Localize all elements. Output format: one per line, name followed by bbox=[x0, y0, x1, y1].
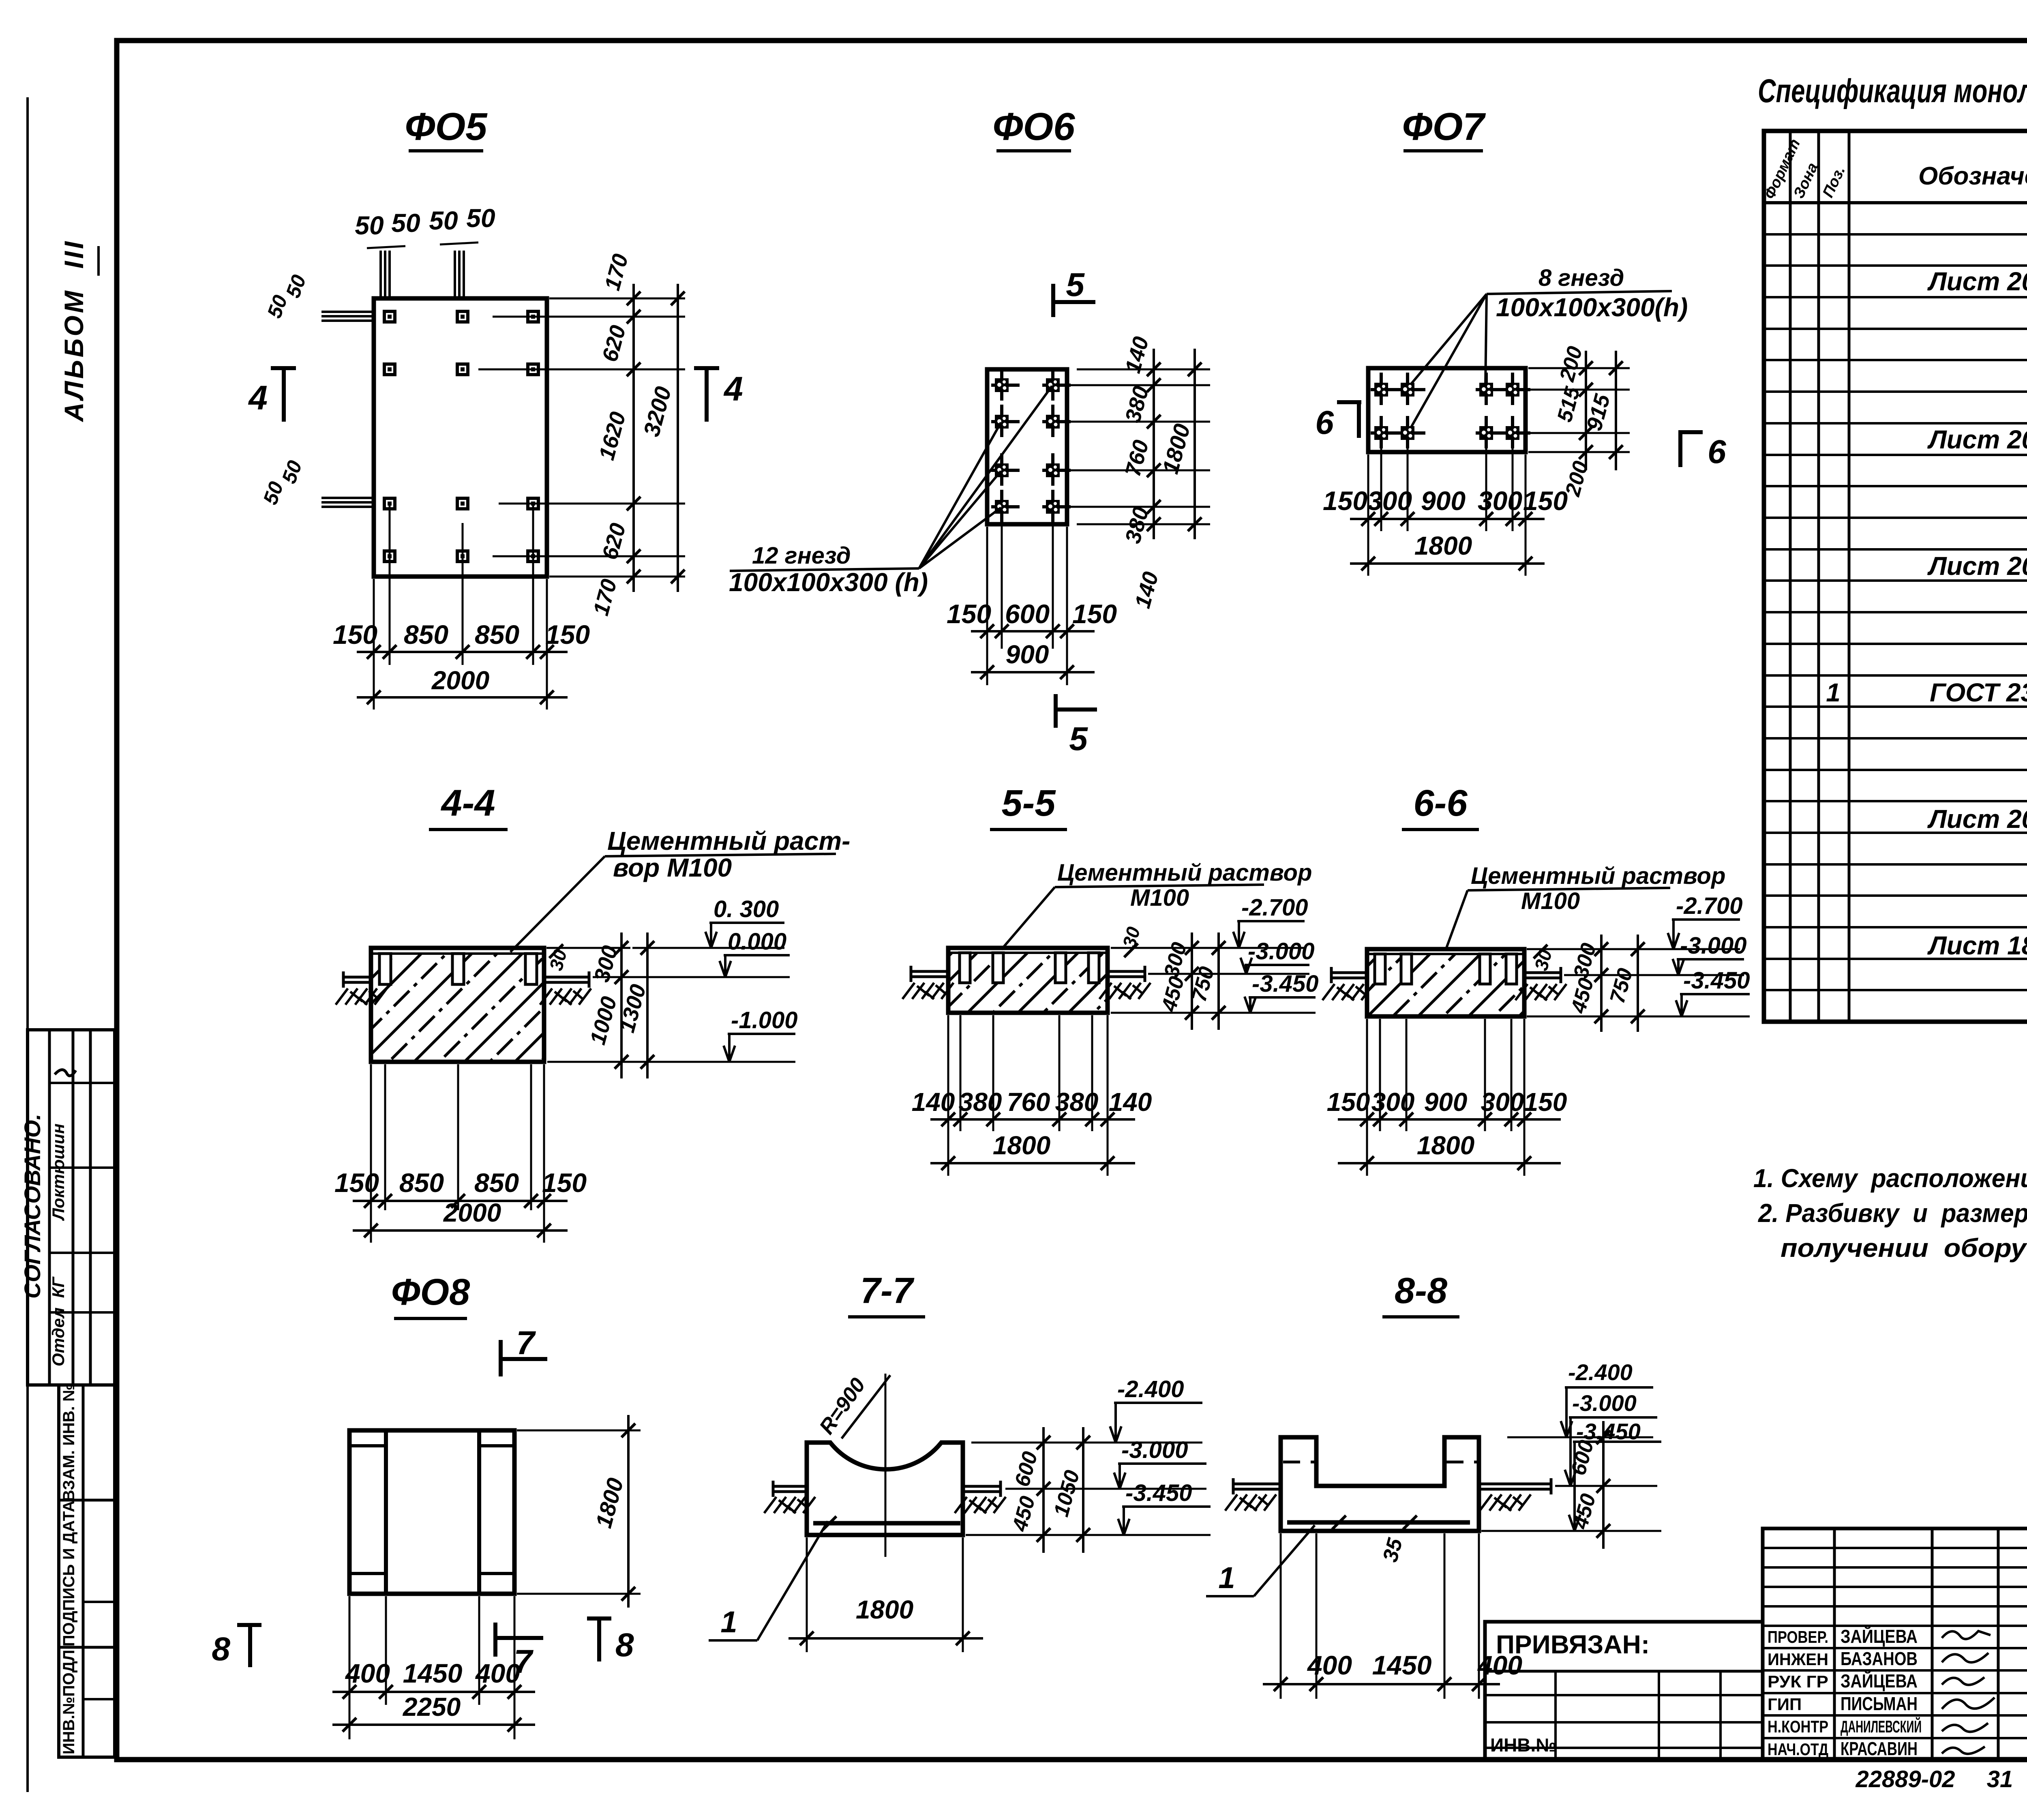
FO6 leader lines bbox=[919, 386, 1052, 568]
anchor bolt FO5 r2c3 bbox=[528, 364, 538, 375]
svg-text:1050: 1050 bbox=[1050, 1468, 1084, 1519]
svg-text:50: 50 bbox=[277, 457, 306, 487]
7-7 centerline bbox=[885, 1374, 887, 1557]
FO5 dim line bottom outer bbox=[357, 696, 568, 699]
socket FO6 r3c2 bbox=[1042, 453, 1071, 486]
table row line 25 bbox=[1764, 989, 2027, 991]
FO8 dim bottom inner bbox=[332, 1691, 535, 1693]
5-5 bottom ext lines bbox=[947, 1015, 949, 1176]
svg-text:8: 8 bbox=[212, 1631, 230, 1668]
table row line 24 bbox=[1764, 958, 2027, 960]
svg-text:4: 4 bbox=[248, 379, 268, 417]
svg-text:620: 620 bbox=[598, 323, 630, 364]
svg-text:2. Разбивку и размеры гнезд: 2. Разбивку и размеры гнезд уточнить при bbox=[1758, 1198, 2027, 1228]
svg-text:300: 300 bbox=[1367, 486, 1412, 516]
svg-text:450: 450 bbox=[1566, 975, 1598, 1016]
signature squiggle bbox=[1942, 1653, 1988, 1662]
svg-text:850: 850 bbox=[404, 620, 448, 650]
lower stamp sub row b bbox=[83, 1698, 115, 1700]
floor stub right 5-5 bbox=[1108, 970, 1146, 973]
level line -2.400 bbox=[971, 1442, 1202, 1444]
svg-text:R=900: R=900 bbox=[815, 1374, 870, 1438]
FO6 dim line right inner bbox=[1153, 349, 1155, 539]
svg-text:600: 600 bbox=[1010, 1449, 1042, 1489]
svg-text:ЗАЙЦЕВА: ЗАЙЦЕВА bbox=[1841, 1670, 1918, 1691]
stamp row 2 bbox=[49, 1166, 115, 1169]
leader 1 s88 bbox=[1254, 1525, 1315, 1596]
svg-text:М100: М100 bbox=[1521, 888, 1580, 914]
8-8 dim line right bbox=[1602, 1421, 1605, 1549]
socket 5-5 n4 bbox=[1088, 953, 1099, 983]
svg-text:300: 300 bbox=[1371, 1087, 1415, 1117]
FO5 dim line right inner bbox=[632, 284, 635, 592]
anchor bolt FO5 r2c1 bbox=[384, 364, 395, 375]
6-6 bottom ext lines bbox=[1366, 1019, 1368, 1176]
socket FO7 r1c3 bbox=[1476, 373, 1504, 405]
socket 5-5 n1 bbox=[960, 953, 970, 983]
soil hatch left 7-7 bbox=[764, 1497, 815, 1513]
section mark 8 left bbox=[237, 1623, 261, 1627]
svg-text:Лист 18: Лист 18 bbox=[1927, 931, 2027, 960]
svg-text:1. Схему расположения фундам: 1. Схему расположения фундаментов см. ли… bbox=[1753, 1164, 2027, 1193]
foundation FO7 outline bbox=[1368, 368, 1526, 452]
svg-text:100х100х300 (h): 100х100х300 (h) bbox=[729, 568, 928, 597]
section mark 8 right bbox=[587, 1616, 611, 1621]
svg-text:150: 150 bbox=[545, 620, 590, 650]
leader 1 s77 bbox=[757, 1521, 828, 1640]
cement mortar layer line 4-4 bbox=[371, 952, 544, 955]
7-7 dim bottom bbox=[789, 1637, 983, 1640]
FO8 inner wall line right bbox=[477, 1430, 481, 1594]
socket 5-5 n3 bbox=[1055, 953, 1066, 983]
svg-text:300: 300 bbox=[1481, 1087, 1524, 1117]
socket FO7 r2c2 bbox=[1397, 416, 1425, 448]
svg-text:получении оборудования.: получении оборудования. bbox=[1781, 1233, 2027, 1263]
table row line 12 bbox=[1764, 579, 2027, 582]
socket FO6 r2c2 bbox=[1042, 405, 1071, 437]
svg-text:50: 50 bbox=[355, 211, 384, 240]
svg-text:31: 31 bbox=[1987, 1766, 2013, 1792]
section mark 4 left bbox=[271, 366, 296, 370]
5-5 dim line right inner bbox=[1191, 933, 1193, 1030]
signature mark bbox=[55, 1070, 76, 1076]
svg-text:1: 1 bbox=[1826, 678, 1841, 707]
signature squiggle bbox=[1942, 1677, 1984, 1685]
level line -3.000 bbox=[1564, 974, 1744, 976]
table row line 16 bbox=[1764, 705, 2027, 708]
svg-text:170: 170 bbox=[600, 251, 633, 293]
svg-text:ФО5: ФО5 bbox=[405, 105, 488, 148]
svg-text:ИНЖЕН: ИНЖЕН bbox=[1768, 1650, 1828, 1669]
8-8 dashed line left post bbox=[1283, 1461, 1315, 1464]
svg-text:-3.450: -3.450 bbox=[1252, 971, 1318, 997]
socket FO6 r1c2 bbox=[1042, 368, 1071, 401]
4-4 bottom ext lines bbox=[370, 1064, 372, 1243]
svg-text:ИНВ.№ПОДЛ: ИНВ.№ПОДЛ bbox=[60, 1650, 78, 1754]
FO6 dim line bottom inner bbox=[971, 630, 1095, 632]
socket FO7 r2c3 bbox=[1476, 416, 1504, 448]
socket FO6 r2c1 bbox=[991, 405, 1020, 437]
socket FO7 r2c4 bbox=[1502, 416, 1530, 448]
svg-text:Цементный раствор: Цементный раствор bbox=[1471, 863, 1725, 889]
soil hatch left 5-5 bbox=[902, 983, 954, 999]
lower stamp box bbox=[59, 1385, 115, 1757]
svg-text:1620: 1620 bbox=[594, 409, 630, 463]
svg-text:1300: 1300 bbox=[615, 982, 651, 1035]
lower stamp sub row a bbox=[83, 1601, 115, 1603]
svg-text:450: 450 bbox=[1008, 1494, 1040, 1534]
svg-text:50: 50 bbox=[259, 478, 288, 508]
embedded plate 7-7 bbox=[813, 1521, 960, 1526]
svg-text:Цементный раствор: Цементный раствор bbox=[1057, 860, 1312, 886]
stamp col line c bbox=[89, 1030, 92, 1385]
svg-text:8: 8 bbox=[615, 1627, 634, 1664]
8-8 U shaped block bbox=[1281, 1437, 1479, 1531]
soil hatch left 4-4 bbox=[336, 988, 387, 1005]
svg-text:1800: 1800 bbox=[591, 1475, 628, 1531]
svg-text:900: 900 bbox=[1006, 640, 1049, 669]
soil hatch right 5-5 bbox=[1099, 983, 1151, 999]
FO6 dim line bottom outer bbox=[971, 671, 1095, 673]
floor stub right 6-6 bbox=[1524, 971, 1562, 974]
svg-text:Лист 20: Лист 20 bbox=[1927, 267, 2027, 296]
rebar group left A bbox=[321, 311, 374, 313]
section mark 5 bottom bbox=[1054, 694, 1058, 728]
svg-text:900: 900 bbox=[1424, 1087, 1468, 1117]
6-6 dim line right inner bbox=[1600, 935, 1603, 1032]
svg-text:5: 5 bbox=[1069, 720, 1088, 757]
svg-text:-1.000: -1.000 bbox=[731, 1007, 797, 1033]
stamp col line a bbox=[48, 1030, 51, 1385]
anchor bolt FO5 r4c1 bbox=[384, 551, 395, 562]
svg-text:2250: 2250 bbox=[403, 1692, 461, 1721]
svg-text:Зона: Зона bbox=[1790, 160, 1821, 201]
rebar top dim marks bbox=[367, 246, 405, 248]
svg-text:1800: 1800 bbox=[993, 1131, 1050, 1160]
svg-text:ПРОВЕР.: ПРОВЕР. bbox=[1768, 1627, 1828, 1646]
svg-text:3200: 3200 bbox=[639, 384, 676, 439]
svg-text:400: 400 bbox=[345, 1658, 390, 1688]
svg-text:30: 30 bbox=[1530, 947, 1556, 973]
7-7 dim line right outer bbox=[1082, 1427, 1084, 1553]
svg-text:ГОСТ 23279-85: ГОСТ 23279-85 bbox=[1930, 678, 2027, 707]
level line -2.700 bbox=[1527, 948, 1740, 950]
FO5 dim line bottom inner bbox=[357, 651, 568, 653]
FO8 right strip caps bbox=[479, 1444, 514, 1447]
stamp row 3 bbox=[49, 1252, 115, 1254]
svg-text:150: 150 bbox=[1323, 486, 1367, 516]
svg-text:-2.400: -2.400 bbox=[1568, 1359, 1633, 1385]
svg-text:-3.000: -3.000 bbox=[1680, 933, 1746, 959]
svg-text:750: 750 bbox=[1605, 966, 1637, 1006]
soil hatch left 8-8 bbox=[1225, 1494, 1276, 1511]
svg-text:4-4: 4-4 bbox=[441, 782, 495, 824]
svg-text:150: 150 bbox=[542, 1168, 587, 1198]
floor stub left 8-8 bbox=[1232, 1483, 1281, 1486]
approval stamp box bbox=[28, 1030, 115, 1385]
6-6 dim line right outer bbox=[1637, 935, 1639, 1032]
table row line 21 bbox=[1764, 863, 2027, 866]
table row line 22 bbox=[1764, 894, 2027, 897]
anchor bolt FO5 r1c1 bbox=[384, 311, 395, 322]
anchor bolt FO5 r3c2 bbox=[457, 498, 468, 509]
svg-text:БАЗАНОВ: БАЗАНОВ bbox=[1841, 1648, 1918, 1669]
section 4-4 concrete block bbox=[371, 954, 544, 1062]
8-8 dashed line right post bbox=[1446, 1461, 1477, 1464]
svg-text:-3.000: -3.000 bbox=[1572, 1390, 1637, 1416]
table row line 17 bbox=[1764, 737, 2027, 740]
5-5 dim line right outer bbox=[1217, 933, 1220, 1030]
svg-text:Лист 20: Лист 20 bbox=[1927, 804, 2027, 834]
sheet trim line left bbox=[26, 97, 29, 1792]
svg-text:380: 380 bbox=[1121, 384, 1153, 425]
anchor bolt FO5 r3c1 bbox=[384, 498, 395, 509]
stamp row 1 bbox=[49, 1082, 115, 1084]
level line -3.450 bbox=[966, 1534, 1211, 1536]
level line -1.000 bbox=[547, 1061, 795, 1063]
svg-text:150: 150 bbox=[1072, 599, 1117, 629]
table row line 10 bbox=[1764, 517, 2027, 519]
6-6 dim bottom outer bbox=[1338, 1162, 1561, 1164]
svg-text:0.000: 0.000 bbox=[728, 928, 786, 955]
4-4 dim line right outer bbox=[646, 933, 649, 1078]
svg-text:7-7: 7-7 bbox=[860, 1271, 915, 1311]
svg-text:1: 1 bbox=[1218, 1561, 1235, 1595]
level line -3.000 bbox=[1005, 1488, 1206, 1490]
svg-text:50: 50 bbox=[263, 292, 292, 321]
socket 6-6 n2 bbox=[1401, 954, 1412, 984]
socket FO7 r1c1 bbox=[1371, 373, 1399, 405]
svg-text:150: 150 bbox=[334, 1168, 379, 1198]
svg-text:850: 850 bbox=[474, 1168, 519, 1198]
rebar group top A bbox=[379, 251, 382, 298]
svg-text:7: 7 bbox=[514, 1643, 534, 1680]
section mark 7 bottom bbox=[493, 1623, 497, 1657]
svg-text:5: 5 bbox=[1066, 266, 1085, 303]
svg-text:6: 6 bbox=[1315, 404, 1334, 441]
foundation FO8 outline bbox=[349, 1430, 514, 1594]
svg-text:140: 140 bbox=[912, 1087, 955, 1117]
signature squiggle bbox=[1942, 1698, 1995, 1709]
svg-text:150: 150 bbox=[947, 599, 991, 629]
table row line 14 bbox=[1764, 643, 2027, 645]
svg-text:450: 450 bbox=[1157, 974, 1189, 1014]
table row line 18 bbox=[1764, 769, 2027, 771]
anchor bolt FO5 r1c3 bbox=[528, 311, 538, 322]
soil hatch right 6-6 bbox=[1515, 984, 1566, 1000]
level line 0.000 bbox=[593, 976, 790, 978]
svg-text:6-6: 6-6 bbox=[1414, 782, 1468, 824]
svg-text:ПРИВЯЗАН:: ПРИВЯЗАН: bbox=[1496, 1630, 1650, 1659]
8-8 bottom ext lines bbox=[1280, 1533, 1282, 1699]
svg-text:-3.000: -3.000 bbox=[1248, 938, 1314, 965]
radius line bbox=[842, 1375, 890, 1438]
FO6 dim line right outer bbox=[1193, 349, 1196, 539]
anchor bolt FO5 r3c3 bbox=[528, 498, 538, 509]
table row line 19 bbox=[1764, 800, 2027, 802]
level line -3.000 bbox=[1148, 973, 1309, 975]
socket 4-4 n2 bbox=[452, 954, 464, 984]
soil hatch left 6-6 bbox=[1322, 984, 1373, 1000]
svg-text:1: 1 bbox=[720, 1605, 737, 1639]
svg-text:50: 50 bbox=[466, 204, 495, 233]
cement mortar layer line 5-5 bbox=[948, 952, 1108, 954]
socket 6-6 n4 bbox=[1506, 954, 1517, 984]
svg-text:380: 380 bbox=[1121, 504, 1153, 546]
8-8 dim bottom bbox=[1263, 1683, 1500, 1685]
cement leader 6-6 bbox=[1446, 890, 1468, 950]
4-4 dim bottom inner bbox=[353, 1200, 568, 1202]
FO6 bottom extension lines bbox=[986, 527, 988, 685]
7-7 bottom ext lines bbox=[806, 1537, 808, 1652]
signature squiggle bbox=[1942, 1747, 1985, 1754]
FO8 bottom ext lines bbox=[349, 1596, 351, 1739]
svg-text:100х100х300(h): 100х100х300(h) bbox=[1496, 293, 1688, 322]
lower stamp row 2 bbox=[59, 1646, 115, 1649]
FO7 leader lines bbox=[1408, 294, 1487, 387]
level line -2.400 bbox=[1507, 1436, 1653, 1438]
svg-text:-3.450: -3.450 bbox=[1125, 1480, 1192, 1506]
svg-text:Спецификация монолитных фундам: Спецификация монолитных фундаментов под … bbox=[1758, 73, 2027, 109]
foundation FO6 outline bbox=[987, 369, 1067, 524]
FO6 right extension lines bbox=[1077, 369, 1210, 371]
floor stub right 4-4 bbox=[544, 976, 590, 979]
svg-text:760: 760 bbox=[1007, 1087, 1050, 1117]
socket 6-6 n1 bbox=[1375, 954, 1385, 984]
anchor bolt FO5 r1c2 bbox=[457, 311, 468, 322]
cement leader 5-5 bbox=[1001, 887, 1055, 950]
svg-text:АЛЬБОМ III: АЛЬБОМ III bbox=[59, 239, 89, 422]
table row line 3 bbox=[1764, 296, 2027, 298]
6-6 dim bottom inner bbox=[1338, 1118, 1561, 1121]
FO7 dim line right outer bbox=[1615, 351, 1617, 470]
rebar group left B bbox=[321, 497, 374, 499]
svg-text:8-8: 8-8 bbox=[1395, 1271, 1447, 1311]
svg-text:50: 50 bbox=[281, 272, 311, 301]
svg-text:РУК ГР: РУК ГР bbox=[1768, 1672, 1828, 1691]
svg-text:КРАСАВИН: КРАСАВИН bbox=[1841, 1738, 1918, 1759]
table row line 1 bbox=[1764, 233, 2027, 236]
section mark 5 top bbox=[1051, 284, 1055, 317]
soil hatch right 7-7 bbox=[955, 1497, 1006, 1513]
level line -3.450 bbox=[1527, 1016, 1750, 1018]
svg-text:22889-02: 22889-02 bbox=[1855, 1766, 1955, 1792]
svg-text:1450: 1450 bbox=[403, 1658, 463, 1688]
svg-text:1800: 1800 bbox=[1157, 421, 1195, 477]
FO8 dim bottom outer bbox=[332, 1724, 535, 1726]
svg-text:380: 380 bbox=[1055, 1087, 1099, 1117]
lower stamp row 1 bbox=[59, 1499, 115, 1502]
svg-text:150: 150 bbox=[1523, 486, 1568, 516]
col line poz bbox=[1848, 131, 1851, 1022]
socket 4-4 n3 bbox=[525, 954, 537, 984]
svg-text:50: 50 bbox=[391, 208, 420, 238]
table row line 4 bbox=[1764, 328, 2027, 330]
svg-text:380: 380 bbox=[959, 1087, 1002, 1117]
svg-text:2000: 2000 bbox=[431, 666, 489, 695]
svg-text:Локтюшин: Локтюшин bbox=[49, 1123, 68, 1221]
section mark 6 right bbox=[1678, 430, 1703, 434]
svg-text:1800: 1800 bbox=[1414, 531, 1472, 560]
4-4 dim ext top bbox=[546, 947, 630, 949]
svg-text:1000: 1000 bbox=[585, 994, 621, 1048]
col line zona bbox=[1817, 131, 1820, 1022]
svg-text:Отдел КГ: Отдел КГ bbox=[49, 1276, 68, 1367]
7-7 dim line right inner bbox=[1042, 1427, 1045, 1553]
svg-text:-2.700: -2.700 bbox=[1241, 894, 1308, 921]
table row line 23 bbox=[1764, 926, 2027, 928]
svg-text:1800: 1800 bbox=[856, 1595, 913, 1624]
socket FO6 r1c1 bbox=[991, 368, 1020, 401]
svg-text:760: 760 bbox=[1121, 437, 1153, 479]
svg-text:ПОДПИСЬ И ДАТА: ПОДПИСЬ И ДАТА bbox=[60, 1501, 78, 1646]
FO7 dim line bottom outer bbox=[1350, 562, 1545, 565]
section 6-6 concrete block bbox=[1367, 954, 1524, 1016]
floor stub left 4-4 bbox=[343, 976, 371, 979]
floor stub left 5-5 bbox=[910, 970, 948, 973]
svg-text:150: 150 bbox=[1327, 1087, 1370, 1117]
floor stub right 7-7 bbox=[963, 1485, 1001, 1488]
anchor bolt FO5 r4c2 bbox=[457, 551, 468, 562]
svg-text:ФО7: ФО7 bbox=[1402, 105, 1486, 148]
svg-text:35: 35 bbox=[1378, 1535, 1407, 1565]
embedded plate 8-8 bbox=[1287, 1520, 1470, 1525]
FO8 dim line right bbox=[627, 1415, 630, 1608]
table row line 9 bbox=[1764, 485, 2027, 487]
signature squiggle bbox=[1942, 1631, 1991, 1639]
svg-text:8 гнезд: 8 гнезд bbox=[1538, 265, 1624, 291]
svg-text:ФО8: ФО8 bbox=[391, 1271, 470, 1313]
svg-text:ФО6: ФО6 bbox=[992, 105, 1075, 148]
svg-text:850: 850 bbox=[475, 620, 519, 650]
svg-text:7: 7 bbox=[516, 1325, 536, 1361]
section mark 6 left bbox=[1337, 400, 1361, 404]
svg-text:М100: М100 bbox=[1130, 885, 1189, 911]
table row line 11 bbox=[1764, 548, 2027, 551]
FO5 dim line right outer bbox=[677, 284, 679, 592]
svg-text:4: 4 bbox=[723, 370, 743, 408]
svg-text:300: 300 bbox=[1478, 486, 1522, 516]
svg-text:140: 140 bbox=[1109, 1087, 1152, 1117]
socket 4-4 n1 bbox=[379, 954, 391, 984]
svg-text:ИНВ.№: ИНВ.№ bbox=[1490, 1734, 1557, 1756]
socket 6-6 n3 bbox=[1480, 954, 1490, 984]
svg-text:400: 400 bbox=[1307, 1650, 1352, 1680]
socket 5-5 n2 bbox=[993, 953, 1003, 983]
FO5 right extension lines bbox=[493, 316, 685, 318]
svg-text:140: 140 bbox=[1130, 569, 1163, 611]
socket FO6 r4c2 bbox=[1042, 490, 1071, 522]
4-4 dim bottom outer bbox=[353, 1229, 568, 1232]
svg-text:Поз.: Поз. bbox=[1819, 163, 1849, 200]
level line -3.450 bbox=[1481, 1530, 1661, 1532]
svg-text:Обозначение: Обозначение bbox=[1918, 162, 2027, 190]
soil hatch right 8-8 bbox=[1480, 1494, 1531, 1511]
level line -2.700 bbox=[1111, 947, 1305, 949]
7-7 block with arc bbox=[807, 1443, 963, 1535]
svg-text:1450: 1450 bbox=[1372, 1650, 1432, 1680]
svg-text:50: 50 bbox=[429, 206, 458, 235]
svg-text:СОГЛАСОВАНО.: СОГЛАСОВАНО. bbox=[19, 1114, 45, 1299]
FO7 dim line right inner bbox=[1585, 351, 1587, 470]
svg-text:ВЗАМ. ИНВ. №: ВЗАМ. ИНВ. № bbox=[60, 1383, 78, 1501]
svg-text:-3.450: -3.450 bbox=[1683, 967, 1750, 994]
svg-text:Цементный раст-: Цементный раст- bbox=[607, 826, 850, 855]
spec table outer border bbox=[1764, 131, 2027, 1022]
svg-text:300: 300 bbox=[589, 943, 622, 985]
svg-text:ГИП: ГИП bbox=[1768, 1695, 1802, 1714]
svg-text:150: 150 bbox=[1524, 1087, 1567, 1117]
